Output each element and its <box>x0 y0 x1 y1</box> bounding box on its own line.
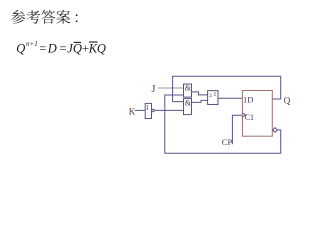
svg-text:Q: Q <box>97 42 106 56</box>
svg-text:n+1: n+1 <box>26 40 38 48</box>
svg-text:=: = <box>39 42 47 56</box>
svg-text:K: K <box>129 106 136 116</box>
svg-text:=: = <box>59 42 67 56</box>
svg-text:1: 1 <box>213 91 216 98</box>
svg-text:&: & <box>185 99 192 108</box>
svg-text:CP: CP <box>222 137 233 147</box>
svg-text:Q: Q <box>16 42 25 56</box>
svg-text:C1: C1 <box>245 113 254 122</box>
svg-text:J: J <box>152 84 156 95</box>
svg-text:Q: Q <box>284 95 291 105</box>
svg-text:&: & <box>185 83 192 92</box>
svg-text:≥: ≥ <box>209 92 213 99</box>
svg-text:1D: 1D <box>243 95 253 105</box>
svg-text:1: 1 <box>146 104 150 112</box>
svg-text:D: D <box>47 42 57 56</box>
